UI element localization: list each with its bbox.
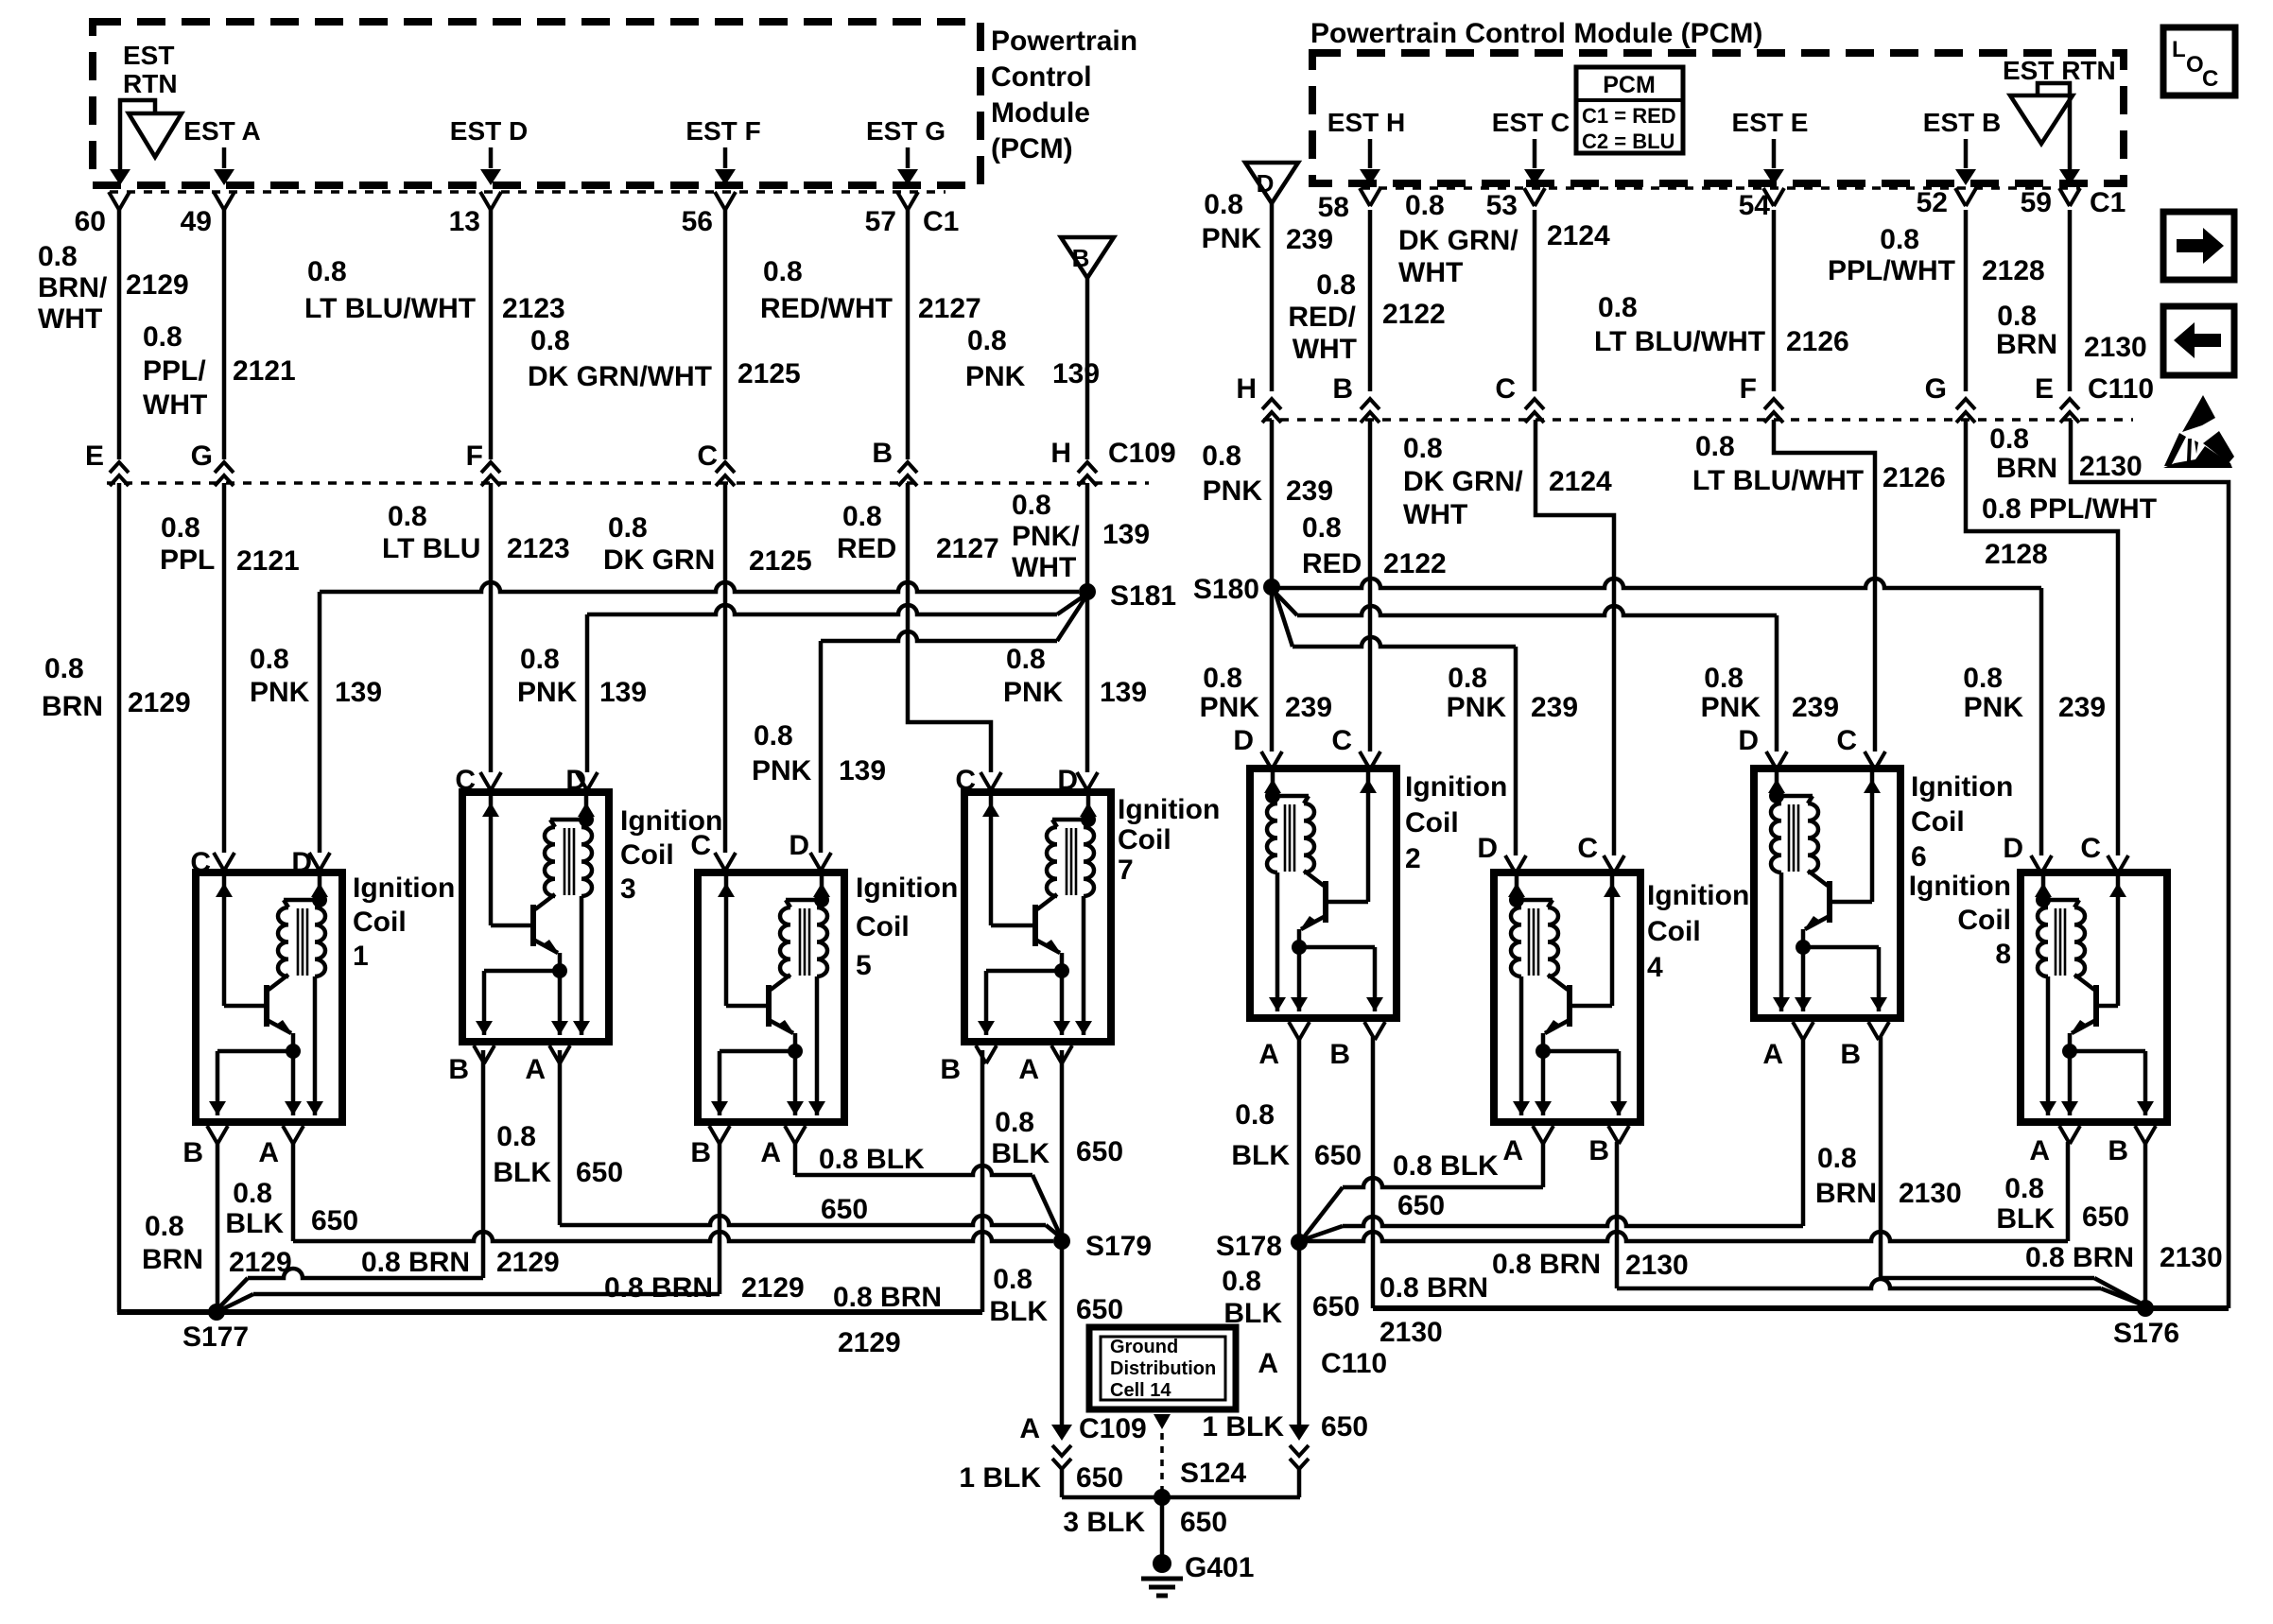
svg-text:60: 60 xyxy=(75,206,106,237)
svg-text:0.8: 0.8 xyxy=(842,501,882,532)
C110-A arrowhead and connector xyxy=(1289,1425,1310,1441)
svg-text:2123: 2123 xyxy=(507,533,570,564)
svg-text:2129: 2129 xyxy=(496,1247,560,1278)
wire 54-F 0.8 LT BLU/WHT 2126 (upper) xyxy=(1772,210,1777,391)
right C1 pin connector symbol at x=2189 xyxy=(2059,188,2080,206)
wire 53-C 0.8 DK GRN/WHT 2124 (upper) xyxy=(1533,210,1537,391)
right C1 pin connector symbol at x=1623 xyxy=(1524,188,1545,206)
svg-text:Coil: Coil xyxy=(353,907,407,938)
wire C 0.8 DK GRN/WHT 2124 to coil4-C (jog) xyxy=(1536,420,1614,855)
svg-text:Distribution: Distribution xyxy=(1110,1358,1216,1379)
PCM module dashed box (left) xyxy=(93,22,980,185)
svg-text:PNK: PNK xyxy=(965,361,1026,392)
svg-text:2129: 2129 xyxy=(128,687,191,718)
ignition coil 2 box and internals (transformer + driver transistor Q2) xyxy=(1250,769,1397,1018)
svg-text:B: B xyxy=(448,1054,469,1085)
wire coil4-A 0.8 BLK 650 to S178 xyxy=(1541,1142,1546,1187)
svg-text:2130: 2130 xyxy=(2160,1242,2223,1273)
splice S176 xyxy=(2137,1300,2154,1317)
coil 2 pin A connector xyxy=(1364,1022,1385,1040)
PNK branch wire S180 to coil8-D xyxy=(1272,579,2041,588)
svg-text:3: 3 xyxy=(620,873,636,905)
EST H wire and arrowhead xyxy=(1368,139,1373,168)
svg-text:F: F xyxy=(466,441,483,472)
svg-text:0.8 BRN: 0.8 BRN xyxy=(1492,1249,1601,1280)
svg-text:Module: Module xyxy=(991,97,1090,129)
svg-text:650: 650 xyxy=(2082,1201,2129,1233)
svg-text:C: C xyxy=(697,441,718,472)
ignition coil 7 box and internals (transformer + driver transistor Q7) xyxy=(964,792,1111,1042)
C110 pass-through connector chevrons at x=2079 xyxy=(1956,399,1975,409)
right C1 pin connector symbol at x=2079 xyxy=(1955,188,1976,206)
svg-text:PNK: PNK xyxy=(1701,692,1761,723)
svg-text:C: C xyxy=(1836,725,1857,756)
wire H 0.8 PNK/WHT 139 to S181 xyxy=(1085,483,1090,592)
svg-text:0.8 BRN: 0.8 BRN xyxy=(2025,1242,2134,1273)
ignition coil 8 box and internals (transformer + driver transistor Q8) xyxy=(2021,872,2167,1122)
wire coil8-A 0.8 BLK 650 to S178 xyxy=(2066,1142,2071,1241)
svg-text:2129: 2129 xyxy=(126,269,189,301)
EST RTN wire arrowhead into pin 59 xyxy=(2059,169,2080,185)
svg-text:PNK: PNK xyxy=(250,677,310,708)
svg-text:650: 650 xyxy=(1397,1190,1445,1221)
coil 4 pin B connector xyxy=(1533,1126,1553,1144)
wire coil8-B 0.8 BRN 2130 to S176 xyxy=(2143,1142,2148,1308)
svg-text:E: E xyxy=(85,441,104,472)
PNK branch wire S180 to coil4-D xyxy=(1275,594,1293,647)
svg-text:EST H: EST H xyxy=(1327,108,1405,137)
C1 pin connector symbol at x=237 xyxy=(214,192,234,210)
svg-text:G: G xyxy=(1925,373,1947,405)
svg-text:0.8: 0.8 xyxy=(307,256,347,287)
PNK branch wire S181 to coil3-D xyxy=(587,605,1057,614)
svg-text:G401: G401 xyxy=(1185,1552,1254,1583)
svg-text:BLK: BLK xyxy=(1223,1298,1282,1329)
svg-text:S178: S178 xyxy=(1216,1231,1282,1262)
svg-text:0.8: 0.8 xyxy=(496,1121,536,1152)
svg-text:PNK: PNK xyxy=(1202,223,1262,254)
wire 49-G 0.8 PPL/WHT 2121 (upper) xyxy=(222,210,227,459)
PNK branch wire S181 to coil1-D xyxy=(320,582,1079,592)
svg-text:Coil: Coil xyxy=(620,839,674,871)
svg-text:239: 239 xyxy=(1286,224,1333,255)
svg-text:2130: 2130 xyxy=(1625,1250,1689,1281)
ignition coil 4 box and internals (transformer + driver transistor Q4) xyxy=(1494,872,1640,1122)
svg-text:2130: 2130 xyxy=(2084,332,2147,363)
wire 58-B 0.8 RED/WHT 2122 (upper) xyxy=(1368,210,1373,391)
C109-A arrowhead and connector xyxy=(1051,1425,1072,1441)
ignition coil 6 box and internals (transformer + driver transistor Q6) xyxy=(1754,769,1900,1018)
ground cell reference triangle and dashed lead xyxy=(1154,1414,1171,1429)
svg-text:PPL/: PPL/ xyxy=(143,355,206,387)
svg-text:0.8: 0.8 xyxy=(161,512,200,544)
svg-text:0.8 BRN: 0.8 BRN xyxy=(604,1272,713,1304)
svg-text:0.8: 0.8 xyxy=(1704,663,1744,694)
svg-text:A: A xyxy=(1258,1039,1279,1070)
svg-text:650: 650 xyxy=(1180,1507,1227,1538)
svg-text:BRN: BRN xyxy=(1996,453,2057,484)
svg-text:A: A xyxy=(1762,1039,1783,1070)
right C1 pin connector symbol at x=1449 xyxy=(1360,188,1380,206)
svg-text:0.8: 0.8 xyxy=(1012,490,1051,521)
EST RTN return triangle symbol (right PCM) xyxy=(2010,95,2073,144)
wire PNK 139 to C109-H (upper) xyxy=(1085,278,1090,459)
svg-text:BRN: BRN xyxy=(142,1244,203,1275)
svg-text:LT BLU/WHT: LT BLU/WHT xyxy=(1594,326,1765,357)
ignition coil 1 box and internals (transformer + driver transistor Q1) xyxy=(196,872,342,1122)
EST RTN wire arrowhead into pin 60 xyxy=(110,169,130,185)
C110 pass-through connector chevrons at x=1345 xyxy=(1262,399,1281,409)
wire G 0.8 PPL 2121 to coil1-C xyxy=(222,483,227,853)
svg-text:0.8: 0.8 xyxy=(1203,663,1242,694)
svg-text:2128: 2128 xyxy=(1985,539,2048,570)
svg-text:Coil: Coil xyxy=(1911,806,1965,838)
svg-text:2: 2 xyxy=(1405,843,1421,874)
svg-text:239: 239 xyxy=(1531,692,1578,723)
wire F 0.8 LT BLU/WHT 2126 to coil6-C (jog) xyxy=(1774,420,1875,752)
svg-text:2123: 2123 xyxy=(502,293,565,324)
svg-text:0.8: 0.8 xyxy=(763,256,803,287)
svg-text:2121: 2121 xyxy=(236,545,300,577)
svg-text:DK GRN/: DK GRN/ xyxy=(1398,225,1518,256)
C109 connector dashed line xyxy=(107,481,1149,485)
svg-text:3 BLK: 3 BLK xyxy=(1063,1507,1145,1538)
svg-text:2124: 2124 xyxy=(1549,466,1612,497)
coil3 top pin connectors xyxy=(480,772,501,790)
svg-text:0.8: 0.8 xyxy=(608,512,648,544)
svg-text:BRN/: BRN/ xyxy=(38,272,108,303)
svg-text:0.8 PPL/WHT: 0.8 PPL/WHT xyxy=(1982,493,2157,525)
svg-text:WHT: WHT xyxy=(1293,334,1357,365)
svg-text:PNK: PNK xyxy=(517,677,578,708)
svg-text:239: 239 xyxy=(1792,692,1839,723)
svg-text:RED/WHT: RED/WHT xyxy=(760,293,893,324)
svg-text:0.8: 0.8 xyxy=(1222,1266,1261,1297)
svg-text:WHT: WHT xyxy=(143,389,207,421)
svg-text:239: 239 xyxy=(1286,475,1333,507)
svg-text:BLK: BLK xyxy=(1231,1140,1290,1171)
coil5 top pin connectors xyxy=(715,853,736,871)
svg-text:Ignition: Ignition xyxy=(353,872,455,904)
svg-text:56: 56 xyxy=(682,206,713,237)
svg-text:Coil: Coil xyxy=(1118,824,1171,855)
coil 7 pin B connector xyxy=(976,1045,997,1063)
wire coil7-A 0.8 BLK 650 through S179 xyxy=(1060,1050,1065,1429)
coil2 top pin connectors xyxy=(1261,752,1282,769)
svg-text:LT BLU/WHT: LT BLU/WHT xyxy=(304,293,476,324)
svg-text:139: 139 xyxy=(1102,519,1150,550)
svg-text:239: 239 xyxy=(2058,692,2106,723)
coil 1 pin A connector xyxy=(283,1126,304,1144)
wire coil6-B 0.8 BRN 2130 to S176 xyxy=(1879,1037,1883,1278)
wire coil3-B 0.8 BRN 2129 to S177 xyxy=(481,1050,486,1278)
svg-text:DK GRN/WHT: DK GRN/WHT xyxy=(528,361,712,392)
svg-text:0.8: 0.8 xyxy=(1963,663,2003,694)
svg-text:0.8 BRN: 0.8 BRN xyxy=(1379,1272,1488,1304)
svg-text:C: C xyxy=(1495,373,1516,405)
svg-text:WHT: WHT xyxy=(1403,499,1467,530)
coil1 top pin connectors xyxy=(214,853,234,871)
svg-text:5: 5 xyxy=(856,950,872,981)
coil 3 pin A connector xyxy=(549,1045,570,1063)
coil4 top pin connectors xyxy=(1505,855,1526,873)
EST G wire and arrowhead xyxy=(906,147,911,168)
ignition coil 5 box and internals (transformer + driver transistor Q5) xyxy=(698,872,844,1122)
svg-text:A: A xyxy=(1019,1413,1040,1444)
svg-text:S181: S181 xyxy=(1110,580,1176,612)
svg-text:139: 139 xyxy=(1052,358,1100,389)
ignition coil 3 box and internals (transformer + driver transistor Q3) xyxy=(462,792,609,1042)
svg-text:EST D: EST D xyxy=(450,116,528,146)
splice S181 xyxy=(1079,583,1096,600)
right C1 pin connector symbol at x=1876 xyxy=(1763,188,1784,206)
C1 connector dashed line (right PCM) xyxy=(1362,186,2080,190)
svg-text:RED: RED xyxy=(1302,548,1362,579)
svg-text:BLK: BLK xyxy=(989,1296,1048,1327)
svg-text:PNK: PNK xyxy=(1203,475,1263,507)
wire B 0.8 RED 2122 to coil2-C xyxy=(1368,420,1373,752)
coil 7 pin A connector xyxy=(1051,1045,1072,1063)
svg-text:650: 650 xyxy=(1312,1291,1360,1322)
svg-text:EST F: EST F xyxy=(685,116,760,146)
wire 57-B 0.8 RED/WHT 2127 (upper) xyxy=(906,210,911,459)
coil 2 pin B connector xyxy=(1289,1022,1310,1040)
svg-text:0.8: 0.8 xyxy=(1202,441,1241,472)
svg-text:139: 139 xyxy=(599,677,647,708)
wire 59-E 0.8 BRN 2130 (upper) xyxy=(2068,210,2073,391)
wire coil1-A 0.8 BLK 650 to S179 xyxy=(291,1142,296,1241)
svg-text:A: A xyxy=(760,1137,781,1168)
wire coil7-B 0.8 BRN 2129 bus to S177 xyxy=(980,1050,985,1312)
svg-text:BLK: BLK xyxy=(1996,1203,2055,1235)
svg-text:LT BLU/WHT: LT BLU/WHT xyxy=(1692,465,1864,496)
svg-text:0.8: 0.8 xyxy=(1302,512,1342,544)
svg-text:BLK: BLK xyxy=(991,1138,1050,1169)
svg-text:EST RTN: EST RTN xyxy=(2003,56,2116,85)
svg-text:EST B: EST B xyxy=(1923,108,2001,137)
svg-text:WHT: WHT xyxy=(38,303,102,335)
svg-text:S180: S180 xyxy=(1193,574,1259,605)
off-page triangle D (PNK 239 feed) xyxy=(1245,163,1298,203)
svg-text:PNK: PNK xyxy=(1447,692,1507,723)
svg-text:0.8: 0.8 xyxy=(967,325,1007,356)
svg-text:BLK: BLK xyxy=(493,1157,551,1188)
wire G 0.8 PPL/WHT 2128 to coil8-C (jog) xyxy=(1966,420,2118,855)
svg-text:EST G: EST G xyxy=(866,116,946,146)
svg-text:B: B xyxy=(690,1137,711,1168)
svg-text:A: A xyxy=(1258,1348,1278,1379)
C1 pin connector symbol at x=767 xyxy=(715,192,736,210)
svg-text:0.8: 0.8 xyxy=(1403,433,1443,464)
svg-text:139: 139 xyxy=(839,755,886,786)
C110 pass-through connector chevrons at x=1623 xyxy=(1525,399,1544,409)
svg-text:8: 8 xyxy=(1995,939,2011,970)
svg-text:C1 = RED: C1 = RED xyxy=(1582,104,1676,128)
wire coil2-B 0.8 BRN 2130 bus to S176 xyxy=(1371,1037,1376,1308)
wire 52-G 0.8 PPL/WHT 2128 (upper) xyxy=(1964,210,1969,391)
svg-text:0.8: 0.8 xyxy=(530,325,570,356)
wire coil2-A 0.8 BLK 650 through S178 xyxy=(1297,1037,1302,1429)
svg-text:(PCM): (PCM) xyxy=(991,133,1073,164)
svg-text:PPL/WHT: PPL/WHT xyxy=(1828,255,1955,286)
svg-text:1 BLK: 1 BLK xyxy=(959,1462,1041,1494)
svg-text:0.8: 0.8 xyxy=(1448,663,1487,694)
EST RTN return triangle symbol (left PCM) xyxy=(129,113,182,157)
svg-text:B: B xyxy=(2108,1135,2128,1166)
svg-text:B: B xyxy=(1072,244,1090,272)
svg-text:0.8: 0.8 xyxy=(1817,1143,1857,1174)
svg-text:2129: 2129 xyxy=(838,1327,901,1358)
svg-text:D: D xyxy=(2003,833,2023,864)
svg-text:H: H xyxy=(1236,373,1257,405)
C1 connector dashed line (left PCM) xyxy=(110,190,946,194)
svg-text:0.8: 0.8 xyxy=(1598,292,1638,323)
svg-text:650: 650 xyxy=(1076,1294,1123,1325)
svg-text:59: 59 xyxy=(2021,187,2052,218)
svg-text:EST A: EST A xyxy=(183,116,260,146)
svg-text:0.8: 0.8 xyxy=(995,1107,1034,1138)
svg-text:2122: 2122 xyxy=(1383,548,1447,579)
svg-text:PPL: PPL xyxy=(160,544,215,576)
EST D wire and arrowhead xyxy=(489,147,494,168)
svg-text:2130: 2130 xyxy=(1379,1317,1443,1348)
C110 pass-through connector chevrons at x=1876 xyxy=(1764,399,1783,409)
svg-text:C110: C110 xyxy=(2088,373,2154,405)
svg-text:650: 650 xyxy=(1076,1462,1123,1494)
PNK branch wire S180 to coil6-D xyxy=(1274,591,1297,615)
coil 1 pin B connector xyxy=(207,1126,228,1144)
svg-text:2130: 2130 xyxy=(2079,451,2143,482)
svg-text:G: G xyxy=(191,441,213,472)
EST F wire and arrowhead xyxy=(723,147,728,168)
svg-text:WHT: WHT xyxy=(1398,257,1463,288)
wire PNK 139 S181 to coil7-D xyxy=(1085,592,1090,772)
svg-text:Ground: Ground xyxy=(1110,1337,1178,1357)
wire B 0.8 RED 2127 to coil7-C (with jog) xyxy=(908,483,991,772)
svg-text:BLK: BLK xyxy=(225,1208,284,1239)
svg-text:A: A xyxy=(1018,1054,1039,1085)
C110 connector dashed line xyxy=(1263,418,2133,422)
C110 pass-through connector chevrons at x=2189 xyxy=(2060,399,2079,409)
svg-text:0.8: 0.8 xyxy=(754,720,793,752)
svg-text:650: 650 xyxy=(1321,1411,1368,1443)
svg-text:Ignition: Ignition xyxy=(1911,771,2013,803)
svg-text:2130: 2130 xyxy=(1899,1178,1962,1209)
splice S180 xyxy=(1263,579,1280,596)
svg-text:DK GRN: DK GRN xyxy=(603,544,715,576)
svg-text:2129: 2129 xyxy=(229,1247,292,1278)
svg-text:Ignition: Ignition xyxy=(1647,880,1749,911)
wire PNK 239 to C110-H (upper) xyxy=(1270,203,1275,391)
svg-text:2128: 2128 xyxy=(1982,255,2045,286)
svg-text:A: A xyxy=(525,1054,546,1085)
wire coil6-A 0.8 BLK 650 to S178 xyxy=(1801,1037,1806,1226)
C109 pass-through connector chevrons at x=1150 xyxy=(1078,462,1097,473)
svg-text:PCM: PCM xyxy=(1603,72,1656,98)
wire coil5-B 0.8 BRN 2129 to S177 xyxy=(718,1142,722,1294)
svg-text:E: E xyxy=(2035,373,2054,405)
svg-text:S177: S177 xyxy=(182,1322,249,1353)
svg-text:139: 139 xyxy=(335,677,382,708)
splice S177 xyxy=(208,1304,225,1321)
svg-text:D: D xyxy=(1477,833,1498,864)
svg-text:C110: C110 xyxy=(1321,1348,1387,1379)
svg-text:B: B xyxy=(1588,1135,1609,1166)
svg-text:RTN: RTN xyxy=(123,69,178,98)
svg-text:B: B xyxy=(1332,373,1353,405)
svg-text:0.8: 0.8 xyxy=(1997,301,2037,332)
svg-text:2126: 2126 xyxy=(1883,462,1946,493)
svg-text:Ignition: Ignition xyxy=(1909,871,2011,902)
LOC off-page reference box xyxy=(2163,27,2235,95)
svg-text:0.8 BLK: 0.8 BLK xyxy=(819,1144,925,1175)
svg-text:Ignition: Ignition xyxy=(1118,794,1220,825)
svg-text:0.8 BRN: 0.8 BRN xyxy=(361,1247,470,1278)
svg-text:C: C xyxy=(1331,725,1352,756)
svg-text:2126: 2126 xyxy=(1786,326,1849,357)
svg-text:LT BLU: LT BLU xyxy=(382,533,480,564)
wire 3 BLK 650 to G401 xyxy=(1160,1497,1165,1560)
svg-text:Coil: Coil xyxy=(856,911,910,942)
svg-text:C1: C1 xyxy=(2090,187,2126,218)
svg-text:D: D xyxy=(1257,169,1275,198)
svg-text:2127: 2127 xyxy=(936,533,999,564)
coil 6 pin A connector xyxy=(1868,1022,1889,1040)
svg-text:650: 650 xyxy=(311,1205,358,1236)
svg-text:L: L xyxy=(2172,37,2186,62)
ground G401 symbol xyxy=(1153,1554,1171,1573)
PCM module dashed box (right) xyxy=(1312,53,2124,183)
svg-text:0.8: 0.8 xyxy=(233,1178,272,1209)
svg-text:WHT: WHT xyxy=(1012,552,1076,583)
svg-text:C: C xyxy=(1577,833,1598,864)
C110 pass-through connector chevrons at x=1449 xyxy=(1361,399,1379,409)
svg-text:EST: EST xyxy=(123,41,174,70)
coil8 top pin connectors xyxy=(2031,855,2052,873)
svg-text:2125: 2125 xyxy=(737,358,801,389)
EST A wire and arrowhead xyxy=(222,147,227,168)
wire coil5-A 0.8 BLK 650 to S179 xyxy=(793,1142,798,1175)
svg-text:13: 13 xyxy=(449,206,480,237)
svg-text:0.8: 0.8 xyxy=(44,653,84,684)
svg-text:RED/: RED/ xyxy=(1288,302,1356,333)
svg-text:0.8: 0.8 xyxy=(1880,224,1919,255)
left-arrow icon box xyxy=(2163,306,2234,375)
svg-text:0.8: 0.8 xyxy=(1989,423,2029,455)
svg-text:53: 53 xyxy=(1486,190,1518,221)
C109 pass-through connector chevrons at x=237 xyxy=(215,462,234,473)
svg-text:S179: S179 xyxy=(1085,1231,1152,1262)
svg-text:0.8: 0.8 xyxy=(1235,1099,1275,1131)
wire PNK 239 S180 to coil2-D xyxy=(1270,587,1275,752)
coil 8 pin A connector xyxy=(2135,1126,2156,1144)
svg-text:2121: 2121 xyxy=(233,355,296,387)
ESD static-sensitive warning symbol xyxy=(2182,395,2215,432)
C109 pass-through connector chevrons at x=126 xyxy=(110,462,129,473)
wire 1 BLK 650 right to S124 xyxy=(1297,1469,1302,1497)
coil 5 pin B connector xyxy=(709,1126,730,1144)
svg-text:239: 239 xyxy=(1285,692,1332,723)
EST E wire and arrowhead xyxy=(1772,139,1777,168)
svg-text:2124: 2124 xyxy=(1547,220,1610,251)
svg-text:C109: C109 xyxy=(1108,438,1176,469)
svg-text:BRN: BRN xyxy=(42,691,103,722)
coil 8 pin B connector xyxy=(2059,1126,2080,1144)
svg-text:0.8: 0.8 xyxy=(1316,269,1356,301)
svg-text:F: F xyxy=(1740,373,1757,405)
svg-text:1 BLK: 1 BLK xyxy=(1202,1411,1284,1443)
C109 pass-through connector chevrons at x=960 xyxy=(898,462,917,473)
